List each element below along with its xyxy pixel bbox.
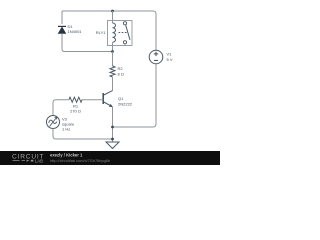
svg-text:270 Ω: 270 Ω <box>70 109 81 114</box>
watermark bar <box>0 151 220 165</box>
relay switch pin bottom <box>124 44 126 46</box>
transistor Q1 emitter lead with arrow <box>104 102 113 107</box>
wire: emitter down to ground <box>112 107 114 142</box>
wire: R2 to collector <box>112 77 114 91</box>
svg-text:1 Hz: 1 Hz <box>62 126 70 131</box>
relay mechanical link (dashed) <box>119 32 128 34</box>
svg-text:http://circuitlab.com/c/7Gh76b: http://circuitlab.com/c/7Gh76bpg6b <box>50 158 110 163</box>
wire: diode cathode down and bottom of coil loop <box>62 34 113 52</box>
svg-text:8 Ω: 8 Ω <box>118 72 124 77</box>
svg-text:1N4001: 1N4001 <box>68 29 83 34</box>
relay coil L <box>112 23 115 42</box>
wire: diode anode riser <box>61 11 63 24</box>
resistor R2 <box>110 66 115 77</box>
transistor Q1 collector lead <box>104 91 113 95</box>
CircuitLab logo <box>12 154 44 164</box>
relay RLY1 body <box>108 21 133 46</box>
source V3 (square wave generator) <box>47 116 60 129</box>
junction: ground node <box>111 138 114 141</box>
relay switch lever <box>126 25 130 40</box>
svg-text:2N2222: 2N2222 <box>118 101 133 106</box>
ground <box>106 142 119 149</box>
junction: top net / relay coil <box>111 10 114 13</box>
wire: V3 bottom to ground net <box>53 129 113 140</box>
source V1 5V <box>149 50 163 64</box>
relay switch pin top <box>124 21 126 22</box>
wire: V1 bottom to emitter node <box>113 64 157 127</box>
svg-text:5 V: 5 V <box>167 57 173 62</box>
resistor R1 <box>69 97 82 102</box>
svg-text:RLY1: RLY1 <box>96 30 106 35</box>
svg-text:exezly / Kicker 1: exezly / Kicker 1 <box>50 152 83 157</box>
wire: junction to R2 <box>112 52 114 67</box>
relay switch contact top <box>123 22 126 25</box>
wire: V3 top to R1 <box>53 100 69 116</box>
junction: emitter / V1 return <box>111 126 114 129</box>
svg-text:LAB: LAB <box>35 158 43 163</box>
junction: coil bottom / diode / R2 <box>111 50 114 53</box>
wire: top net from D1 to V1 <box>62 11 156 50</box>
svg-text:R2: R2 <box>118 66 124 71</box>
relay coil pin bottom <box>112 42 114 51</box>
diode D1 <box>58 26 67 33</box>
relay switch contact bottom <box>123 41 126 44</box>
transistor Q1 base bar <box>102 93 104 104</box>
svg-text:V1: V1 <box>167 52 173 57</box>
relay coil pin top <box>112 11 114 23</box>
svg-text:Q1: Q1 <box>118 96 124 101</box>
wire: base net from V3 through R1 to base <box>82 99 103 101</box>
